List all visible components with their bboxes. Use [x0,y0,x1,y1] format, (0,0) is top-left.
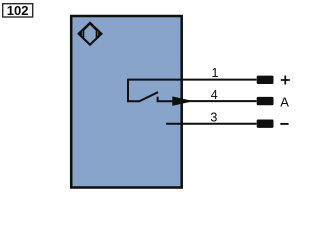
terminal block - [257,120,274,128]
terminal block A [257,97,274,105]
fixed contact tick [158,97,174,101]
arrowhead on pin 4 output [172,96,193,106]
minus symbol [280,123,288,125]
wire 3 (to - terminal) [166,123,257,125]
wire 4 (to A terminal) [183,100,257,102]
switch blade (NO contact) [139,92,158,101]
sensor body (blue box) [71,16,182,188]
svg-text:A: A [280,94,289,109]
proximity switch symbol: right corner triangle [98,31,101,37]
svg-text:3: 3 [210,110,217,124]
proximity switch symbol: outer diamond [79,23,102,45]
terminal block + [257,76,274,84]
proximity switch symbol: inner hexagon [83,24,96,45]
wire 1 (pin 1 to + terminal) with corner down to switch [128,80,257,102]
svg-text:102: 102 [7,3,29,18]
figure number box 102 [3,4,33,17]
svg-text:4: 4 [211,88,218,102]
svg-text:1: 1 [212,66,219,80]
proximity switch symbol: left corner triangle [79,31,82,37]
plus symbol [281,76,290,85]
